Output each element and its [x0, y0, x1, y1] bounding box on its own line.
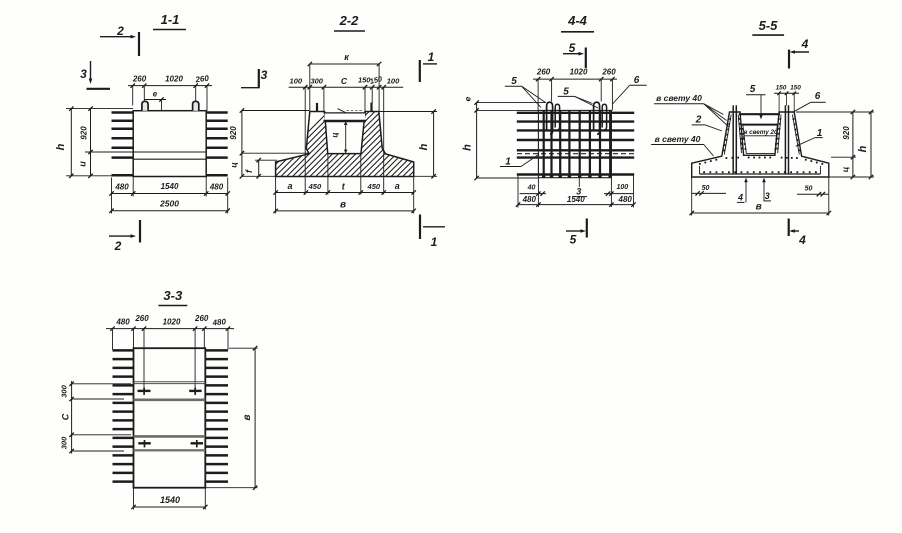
svg-text:1: 1	[505, 157, 511, 168]
svg-text:C: C	[341, 76, 348, 86]
3-3 right dimension v	[205, 346, 257, 490]
svg-text:5: 5	[569, 41, 576, 55]
4-4 leader 1 (hidden line)	[500, 154, 539, 167]
5-5 dimension h (right)	[829, 110, 874, 179]
svg-text:1540: 1540	[567, 195, 585, 204]
1-1 joint line upper	[85, 151, 206, 153]
svg-text:5: 5	[570, 233, 577, 247]
svg-text:480: 480	[522, 195, 537, 204]
svg-text:480: 480	[211, 317, 227, 328]
5-5 rebar dots	[699, 118, 823, 173]
svg-text:3: 3	[765, 191, 770, 201]
svg-text:100: 100	[616, 184, 628, 191]
5-5 position label 4	[737, 178, 748, 203]
svg-text:4: 4	[737, 193, 743, 203]
svg-text:к: к	[344, 52, 349, 62]
svg-text:480: 480	[618, 195, 633, 204]
5-5 inner clearance outline	[743, 125, 778, 154]
4-4 dimension e (left)	[463, 96, 547, 112]
svg-text:40: 40	[527, 185, 536, 192]
svg-text:260: 260	[601, 68, 616, 77]
5-5 leader 2	[692, 115, 722, 132]
svg-text:h: h	[462, 144, 474, 151]
svg-text:4: 4	[801, 37, 809, 51]
svg-text:450: 450	[308, 182, 322, 191]
svg-text:150: 150	[790, 85, 801, 92]
svg-text:260: 260	[536, 68, 551, 77]
4-4 position label 3	[572, 178, 587, 197]
section 5-5 title	[752, 18, 784, 35]
2-2 dimension c (internal beam height)	[331, 121, 348, 154]
4-4 hidden line	[517, 153, 634, 155]
svg-text:h: h	[55, 143, 67, 150]
section 3-3 title	[158, 288, 187, 306]
5-5 bottom dimension v	[690, 177, 832, 216]
1-1 dimension 920/u (left)	[78, 106, 93, 178]
2-2 footing outline	[276, 112, 414, 177]
svg-text:в: в	[242, 414, 253, 420]
section cut mark 1 (2-2 bottom right)	[420, 215, 445, 250]
svg-text:2500: 2500	[159, 199, 179, 209]
svg-text:260: 260	[194, 314, 209, 323]
5-5 footing outline	[692, 112, 829, 177]
svg-text:2: 2	[114, 239, 122, 253]
2-2 dimension k	[308, 52, 382, 112]
svg-text:5: 5	[750, 84, 756, 95]
1-1 bottom dimension 480/1540/480	[109, 177, 230, 214]
svg-text:ц: ц	[229, 162, 239, 168]
svg-text:1: 1	[428, 50, 435, 64]
3-3 cross beam band upper	[134, 382, 206, 400]
5-5 dimension 150 150	[774, 85, 801, 113]
5-5 mini dimension 50 right	[797, 186, 829, 197]
section cut mark 1 (2-2 top right)	[420, 50, 437, 82]
svg-text:h: h	[857, 145, 869, 152]
3-3 top dimension 480/260/1020/260/480	[106, 314, 234, 389]
5-5 lintel beam	[739, 114, 780, 124]
svg-text:h: h	[418, 143, 430, 150]
1-1 protruding bars left	[112, 113, 134, 176]
svg-text:e: e	[463, 96, 473, 101]
5-5 label v svetu 40 (lower)	[651, 134, 713, 156]
2-2 lintel beam	[324, 109, 367, 121]
svg-text:1020: 1020	[570, 68, 588, 77]
3-3 teeth left	[113, 350, 134, 481]
svg-text:в: в	[756, 202, 762, 213]
1-1 top dimension line 260/1020/260	[128, 74, 212, 111]
5-5 vertical rebars right stem	[785, 105, 788, 174]
1-1 footing body outline	[133, 111, 206, 177]
svg-text:100: 100	[387, 77, 400, 86]
svg-text:a: a	[287, 181, 292, 191]
svg-text:2-2: 2-2	[339, 13, 360, 28]
4-4 hairpin anchor left	[547, 102, 560, 134]
svg-text:4: 4	[798, 233, 806, 247]
svg-text:5: 5	[511, 76, 517, 87]
svg-text:3-3: 3-3	[163, 288, 183, 303]
svg-text:50: 50	[805, 186, 813, 193]
svg-text:1540: 1540	[160, 495, 180, 505]
4-4 horizontal rebars	[517, 113, 634, 175]
svg-text:5-5: 5-5	[759, 18, 779, 33]
svg-text:1020: 1020	[163, 318, 181, 327]
5-5 base reinforcement cage	[700, 166, 821, 174]
5-5 position label 3	[762, 178, 771, 201]
section cut mark 2 (top)	[100, 24, 139, 56]
svg-text:3: 3	[261, 68, 268, 82]
2-2 dimension row 100/300/C/150/150/100	[289, 74, 404, 195]
section cut mark 5 (top)	[563, 41, 586, 68]
svg-text:C: C	[61, 413, 71, 420]
svg-text:480: 480	[209, 183, 224, 192]
3-3 anchor cross marks band upper	[138, 388, 202, 395]
svg-text:a: a	[395, 181, 400, 191]
2-2 rebar stub right	[370, 103, 372, 112]
2-2 dimension 920/u (left)	[229, 108, 311, 178]
svg-text:260: 260	[132, 75, 147, 84]
svg-text:2: 2	[695, 115, 702, 126]
svg-text:480: 480	[114, 183, 129, 192]
3-3 bottom dimension 1540	[131, 488, 207, 510]
4-4 hairpin anchor right	[594, 102, 607, 134]
5-5 mini dimension 50 left	[692, 185, 726, 196]
3-3 cross beam band lower	[134, 436, 206, 450]
svg-text:300: 300	[60, 384, 69, 397]
2-2 bottom dimension a/450/t/450/a	[273, 154, 416, 214]
5-5 vertical rebars left stem	[733, 105, 736, 174]
svg-text:300: 300	[310, 77, 323, 86]
2-2 dimension h (right)	[379, 109, 437, 178]
4-4 bottom dimension 480/1540/480	[516, 175, 636, 208]
section cut mark 4 (bottom)	[789, 219, 806, 248]
svg-text:6: 6	[815, 91, 821, 102]
2-2 dimension f	[244, 158, 277, 179]
5-5 leader 1	[796, 128, 823, 146]
section cut mark 5 (bottom)	[566, 219, 587, 247]
section cut mark 4 (top)	[789, 37, 809, 69]
svg-text:в свету 40: в свету 40	[656, 93, 702, 103]
svg-text:1020: 1020	[165, 75, 183, 84]
svg-text:ц: ц	[331, 132, 340, 137]
svg-text:ц: ц	[840, 166, 850, 172]
3-3 anchor cross marks band lower	[138, 440, 203, 447]
5-5 label v svetu 40 (upper)	[654, 93, 729, 127]
svg-text:в свету 40: в свету 40	[655, 134, 701, 144]
svg-text:50: 50	[702, 185, 710, 192]
svg-text:1540: 1540	[161, 182, 179, 191]
3-3 body outline	[134, 348, 206, 488]
svg-text:920: 920	[80, 126, 89, 140]
svg-text:1-1: 1-1	[161, 12, 180, 27]
5-5 stirrup cage right stem	[778, 115, 800, 155]
4-4 leader 5 (left hairpin)	[505, 76, 546, 108]
section 1-1 title	[153, 12, 186, 30]
svg-text:300: 300	[60, 436, 69, 449]
4-4 mini dimension 40	[520, 178, 546, 207]
svg-text:450: 450	[367, 182, 381, 191]
svg-text:920: 920	[229, 126, 238, 140]
4-4 leader 5 (right hairpin)	[558, 87, 598, 109]
svg-text:u: u	[78, 161, 88, 167]
2-2 rebar stub left	[316, 103, 318, 112]
svg-text:920: 920	[842, 126, 851, 140]
svg-text:3: 3	[80, 67, 87, 81]
section cut mark 2 (bottom)	[109, 220, 140, 253]
svg-text:1: 1	[431, 235, 438, 249]
1-1 protruding bars right	[206, 113, 228, 176]
5-5 label v svetu 20	[741, 129, 778, 146]
svg-text:2: 2	[116, 24, 124, 38]
svg-text:100: 100	[290, 77, 303, 86]
1-1 anchor loop right	[193, 101, 199, 110]
1-1 anchor loop left	[142, 101, 148, 110]
3-3 teeth right	[205, 350, 228, 481]
5-5 dimension 920/u (right)	[796, 110, 874, 179]
4-4 leader 6 (right hook)	[613, 75, 647, 104]
svg-text:4-4: 4-4	[567, 13, 588, 28]
section cut mark 3 (left)	[80, 61, 110, 89]
1-1 dimension e	[144, 90, 166, 111]
1-1 bottom dimension 2500	[109, 199, 230, 213]
svg-text:e: e	[153, 90, 158, 99]
svg-text:480: 480	[115, 318, 130, 327]
4-4 dimension h (left)	[462, 110, 539, 180]
5-5 leader 5 (beam arrow)	[746, 84, 766, 120]
5-5 stirrup cage left stem	[724, 115, 741, 155]
4-4 body outline	[538, 110, 611, 177]
3-3 left dimension 300/C/300	[60, 381, 132, 454]
2-2 bottom dimension v	[273, 200, 416, 214]
5-5 leader 6	[794, 91, 826, 112]
4-4 mini dimension 100	[604, 178, 634, 207]
1-1 joint line lower	[133, 158, 206, 160]
section cut mark 3 (2-2 left)	[241, 68, 268, 88]
svg-text:5: 5	[563, 87, 569, 98]
1-1 dimension h (left)	[55, 106, 133, 178]
svg-text:260: 260	[134, 314, 149, 323]
4-4 vertical rebars	[542, 110, 612, 177]
section 2-2 title	[334, 13, 365, 31]
4-4 top dimension 260/1020/260	[533, 68, 617, 111]
svg-text:6: 6	[634, 75, 640, 86]
svg-text:в: в	[340, 200, 346, 211]
section 4-4 title	[561, 13, 594, 32]
svg-text:в свету 20: в свету 20	[744, 129, 778, 136]
svg-text:150: 150	[776, 85, 787, 92]
